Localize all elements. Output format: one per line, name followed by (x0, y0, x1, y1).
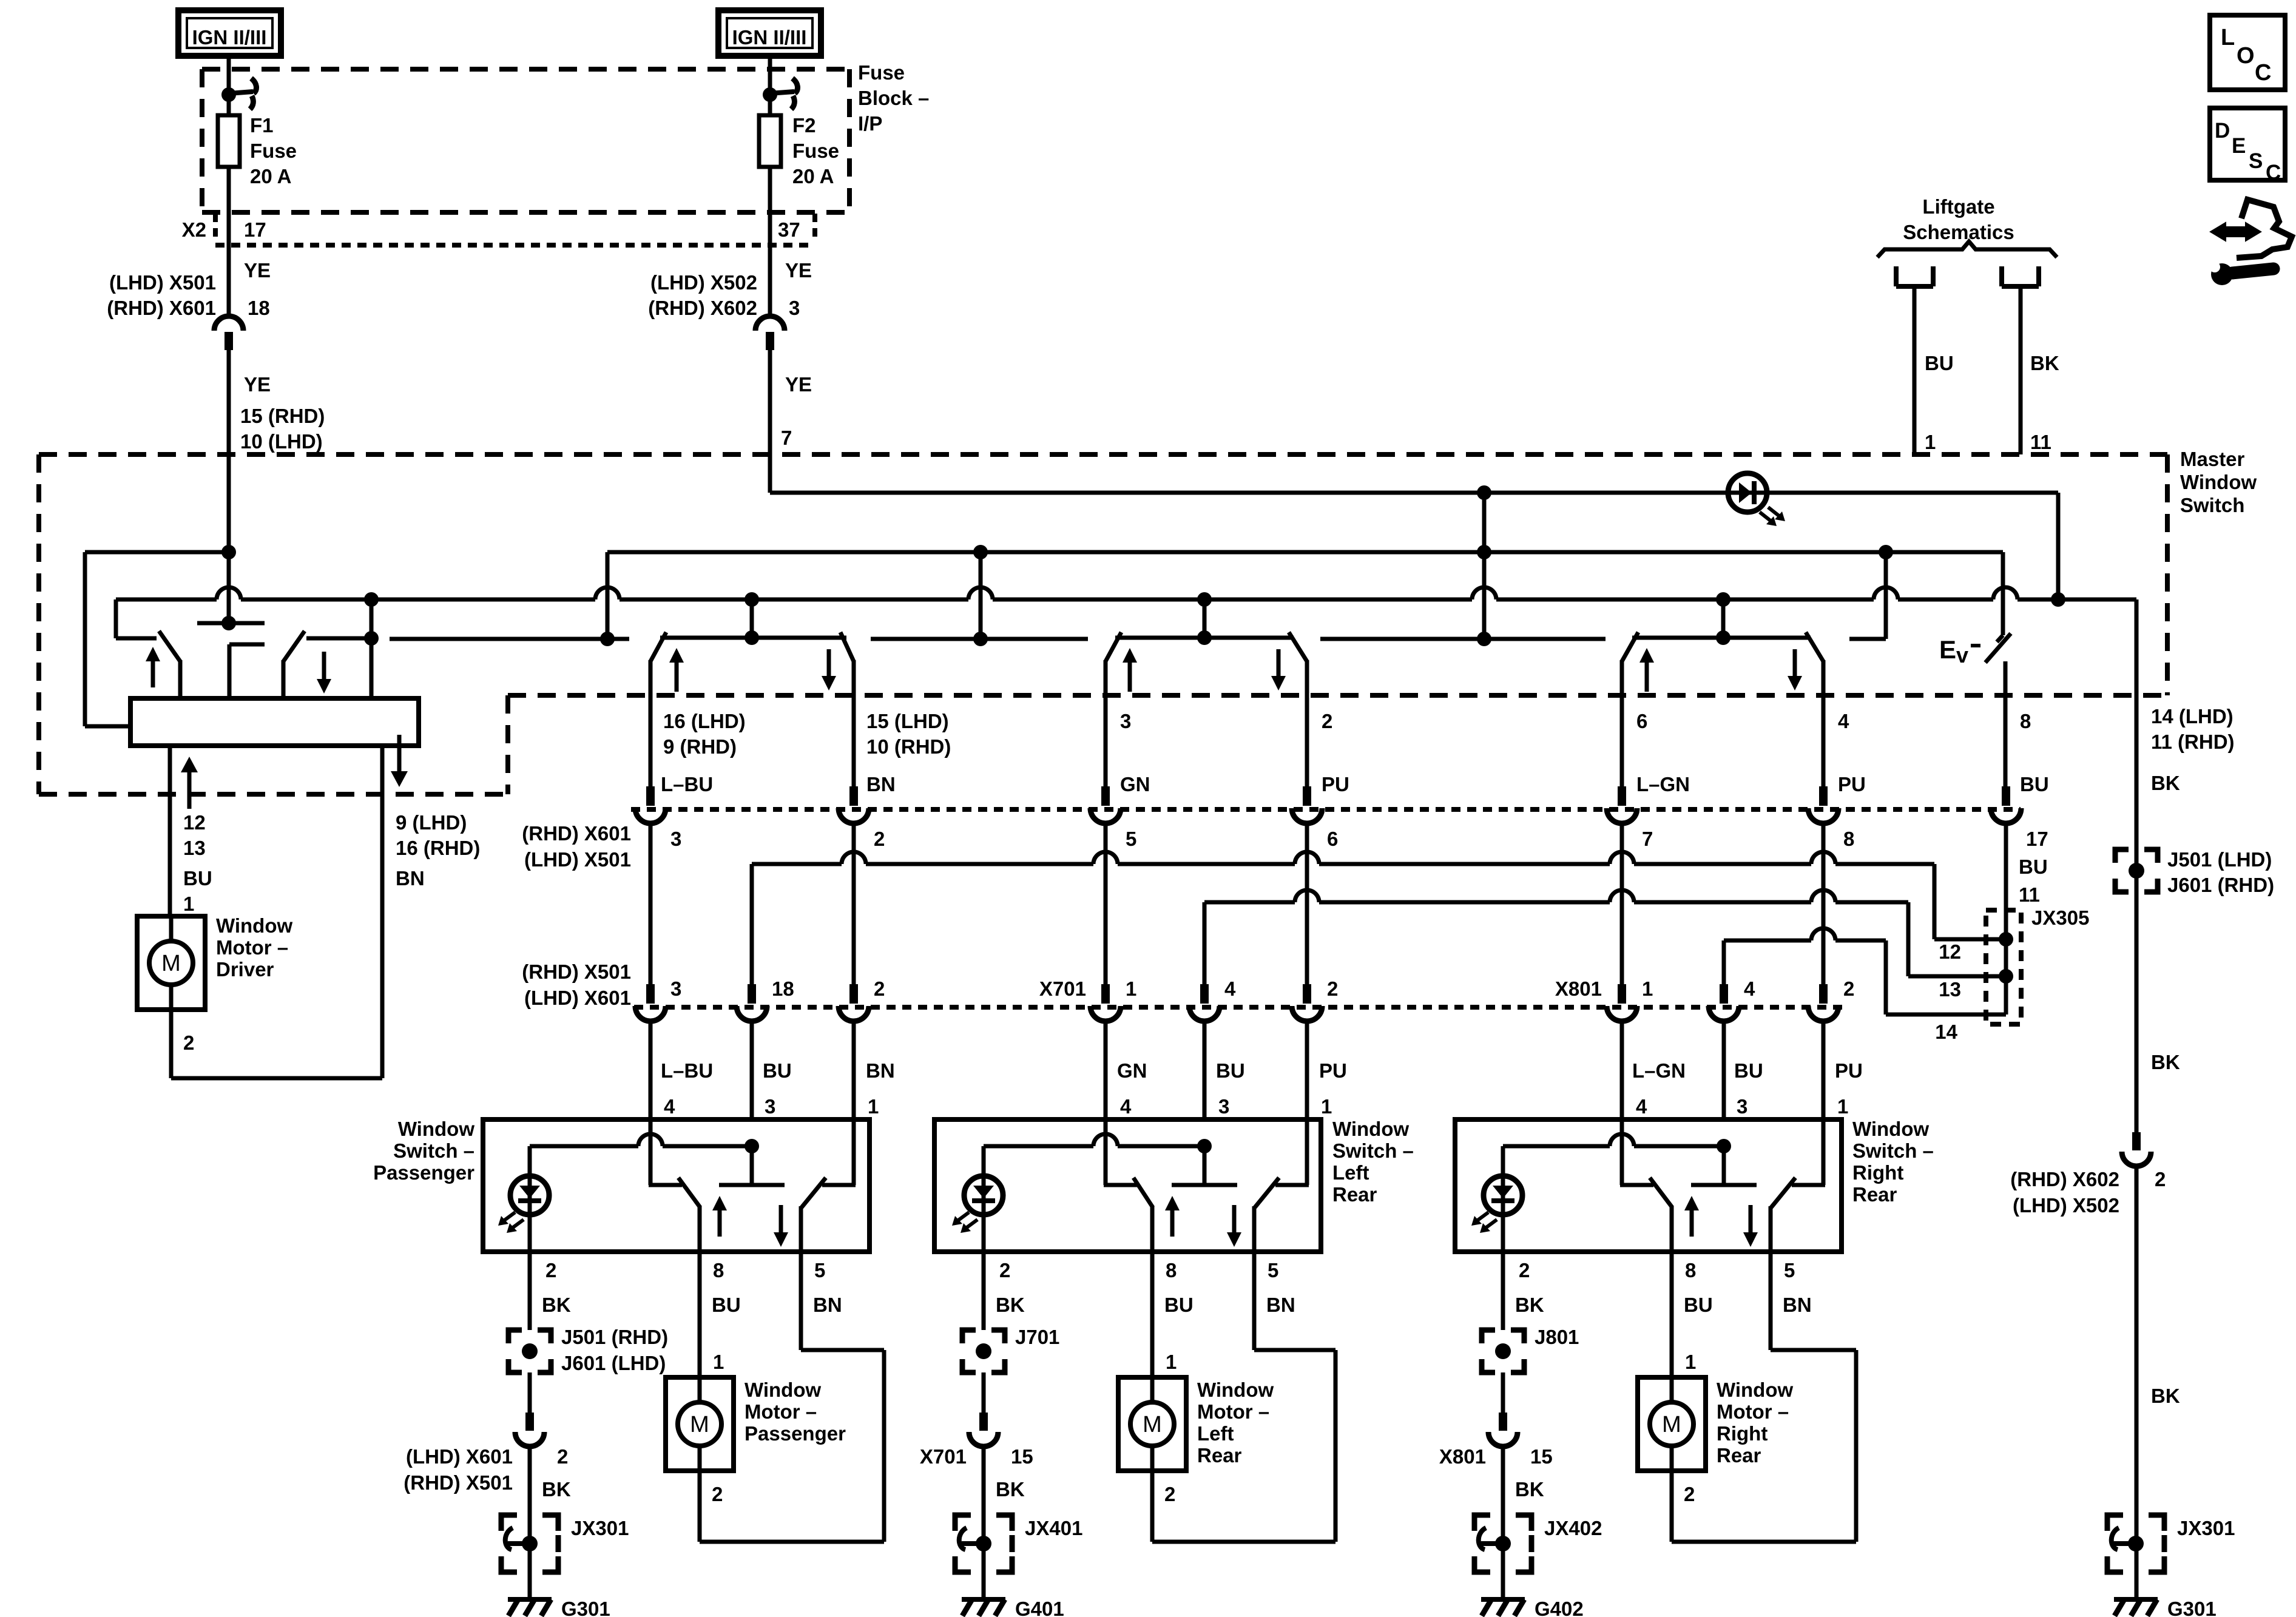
svg-text:1: 1 (1166, 1351, 1177, 1373)
wire down fixed contact (1822, 1119, 1826, 1185)
svg-text:O: O (2237, 43, 2255, 69)
svg-text:Motor –: Motor – (216, 936, 288, 959)
splice JX401 (955, 1515, 971, 1531)
svg-text:X2: X2 (182, 218, 206, 241)
svg-text:GN: GN (1117, 1059, 1147, 1082)
wire LED to bus corner (1767, 491, 2058, 495)
svg-text:Master: Master (2180, 448, 2245, 470)
svg-text:(RHD) X501: (RHD) X501 (522, 960, 631, 983)
unit2 down arm (840, 632, 854, 661)
svg-text:BU: BU (2019, 856, 2048, 878)
svg-text:J601 (RHD): J601 (RHD) (2167, 874, 2274, 896)
svg-text:BN: BN (866, 1059, 895, 1082)
wire LED to box bottom (528, 1215, 532, 1252)
arrow up (pin) (181, 757, 198, 772)
svg-text:(LHD) X502: (LHD) X502 (650, 271, 757, 294)
inline connector X602/X502 pin2 (2132, 1132, 2141, 1150)
wire PU arm down (1305, 660, 1309, 788)
svg-text:Window: Window (398, 1118, 474, 1140)
svg-text:8: 8 (1843, 828, 1854, 850)
wire GN arm down (1104, 660, 1108, 788)
wire BN jog (1254, 1348, 1335, 1352)
svg-text:Right: Right (1717, 1422, 1768, 1445)
arrow up (unit3) (1123, 648, 1137, 663)
svg-text:Window: Window (745, 1379, 821, 1401)
wire L-GN right rear (1620, 824, 1624, 985)
unit4 up arm (1622, 632, 1638, 661)
wire BK to splice (528, 1252, 532, 1330)
svg-text:3: 3 (1120, 710, 1131, 732)
wire to door switch box (1104, 1022, 1108, 1119)
wire line1 into JX305 (1934, 937, 2006, 942)
wire L-BU passenger (649, 824, 653, 985)
svg-text:D: D (2215, 119, 2230, 143)
LED illumination (master switch) (1728, 473, 1767, 512)
wire motor pin2 (169, 1010, 174, 1078)
svg-text:S: S (2249, 149, 2263, 173)
driver switch center contact (228, 644, 232, 698)
splice JX301 (right) (2107, 1515, 2123, 1531)
svg-text:3: 3 (670, 977, 681, 1000)
splice J501(LHD)/J601(RHD) (2115, 849, 2129, 863)
driver switch common bar (197, 621, 265, 626)
svg-text:Rear: Rear (1717, 1444, 1761, 1467)
svg-text:G301: G301 (2167, 1598, 2217, 1617)
node contact segment A (600, 632, 615, 646)
svg-text:Fuse: Fuse (792, 140, 839, 162)
connector row2 pin 1 (1101, 984, 1110, 1004)
unit3 contact bar (1115, 636, 1294, 640)
svg-text:4: 4 (1120, 1095, 1132, 1118)
window motor driver (137, 916, 205, 1010)
inline connector X502/X602 pin3 (755, 316, 785, 331)
liftgate connector fork BU (1894, 266, 1899, 286)
wire pin7 feed line (770, 491, 1728, 495)
wire BU right rear drop (1722, 940, 1726, 985)
svg-text:IGN II/III: IGN II/III (192, 26, 267, 49)
driver switch body (130, 698, 419, 746)
arrow down (pin) (391, 771, 408, 787)
node LED branch (1717, 1139, 1731, 1153)
svg-text:Driver: Driver (216, 958, 274, 981)
wire to LED (528, 1146, 532, 1176)
wire up fixed contact (649, 1119, 653, 1185)
wire motor pin2 (1150, 1471, 1155, 1542)
connector row1 pin 17 (2002, 786, 2010, 806)
common contact bar (1691, 1183, 1757, 1187)
svg-text:X701: X701 (920, 1445, 967, 1468)
svg-text:1: 1 (1837, 1095, 1848, 1118)
svg-text:L–BU: L–BU (661, 773, 713, 795)
wire busA drop unit3 (979, 552, 983, 639)
wire BN from pin5 (799, 1252, 803, 1350)
LED branch wire (984, 1144, 1093, 1149)
svg-text:Window: Window (2180, 471, 2257, 493)
wire L-BU arm down (649, 660, 653, 788)
svg-text:J801: J801 (1535, 1326, 1579, 1348)
wire F2 to X502 connector (768, 167, 772, 316)
svg-text:X701: X701 (1039, 977, 1086, 1000)
node common bar (221, 616, 236, 630)
node W1 branch (221, 545, 236, 559)
wire BN return riser (882, 1350, 886, 1542)
down switch arm (1771, 1178, 1795, 1207)
ground G301 (right) (2114, 1597, 2158, 1602)
svg-text:L–GN: L–GN (1632, 1059, 1686, 1082)
unit4 down arm (1806, 632, 1823, 661)
power tag IGN II/III (right) (718, 10, 821, 56)
node contact segment B (973, 632, 988, 646)
svg-text:8: 8 (2020, 710, 2031, 732)
arrow down (unit3) (1271, 676, 1286, 690)
wire BU to motor pin1 (698, 1252, 702, 1377)
wire BU pin8 down (2004, 661, 2008, 788)
wire IGN to F2 (768, 56, 772, 115)
node busA right segment feed (1879, 545, 1893, 559)
svg-text:BU: BU (763, 1059, 792, 1082)
node JX305 pin13 (1999, 969, 2013, 984)
arrow up (unit4) (1639, 648, 1654, 663)
svg-text:BN: BN (1783, 1294, 1812, 1316)
wire bus2 to bar (unit2) (750, 599, 754, 638)
wire IGN to F1 (227, 56, 231, 115)
inline connector X701 (979, 1413, 988, 1431)
wire PU left rear (1305, 824, 1309, 985)
svg-text:Right: Right (1852, 1161, 1903, 1184)
connector row2 pin 4 (1720, 984, 1728, 1004)
wire branch to box left (85, 550, 229, 555)
wire line3 drop (1884, 940, 1888, 1014)
wire BK to ground (982, 1447, 986, 1599)
svg-text:20 A: 20 A (792, 165, 834, 187)
connector row2 pin 18 (748, 984, 756, 1004)
wire crossover line1 (passenger BU to JX305 12) (752, 862, 842, 866)
svg-text:Window: Window (1717, 1379, 1793, 1401)
wire contact segment B (871, 637, 1088, 641)
svg-text:1: 1 (1126, 977, 1136, 1000)
svg-text:YE: YE (244, 259, 271, 282)
arrow down (774, 1232, 788, 1247)
EV switch arm (1985, 633, 2011, 663)
svg-text:37: 37 (778, 218, 800, 241)
svg-text:Motor –: Motor – (1717, 1400, 1789, 1423)
svg-text:Fuse: Fuse (250, 140, 297, 162)
svg-text:1: 1 (183, 893, 194, 915)
wire BN arm down (852, 660, 856, 788)
svg-text:7: 7 (1642, 828, 1653, 850)
wire to LED (1501, 1146, 1505, 1176)
connector row2 pin 2 (1303, 984, 1311, 1004)
wire liftgate BU pin1 (1913, 286, 1917, 454)
wire BU 17 to JX305 (2004, 824, 2008, 1014)
wire BK to splice (1501, 1252, 1505, 1330)
LED illumination (Window) (510, 1176, 549, 1215)
svg-text:BU: BU (1925, 352, 1954, 374)
svg-text:(RHD) X501: (RHD) X501 (403, 1471, 513, 1494)
svg-text:Block –: Block – (858, 87, 929, 109)
wire bus2 to bar (unit3) (1203, 599, 1207, 638)
svg-text:1: 1 (1321, 1095, 1332, 1118)
connector X2 dotted line (215, 243, 815, 248)
svg-text:11: 11 (2019, 883, 2040, 906)
svg-text:BK: BK (996, 1478, 1025, 1501)
svg-text:BK: BK (2030, 352, 2059, 374)
svg-text:8: 8 (1166, 1259, 1177, 1281)
connector row2 pin 1 (1618, 984, 1626, 1004)
svg-text:JX401: JX401 (1025, 1517, 1082, 1539)
svg-text:YE: YE (244, 373, 271, 396)
wire line2 drop (1906, 902, 1911, 976)
wire motor pin2 (1670, 1471, 1674, 1542)
window motor Rear (1638, 1377, 1706, 1471)
svg-text:2: 2 (1843, 977, 1854, 1000)
svg-text:Rear: Rear (1197, 1444, 1242, 1467)
svg-text:13: 13 (1939, 978, 1961, 1001)
svg-text:M: M (161, 951, 181, 976)
connector row X501/X601 dotted line (631, 807, 2021, 812)
svg-text:YE: YE (785, 373, 812, 396)
node LED feed/bus2 (2051, 592, 2065, 607)
wire LED to box bottom (982, 1215, 986, 1252)
legend icon arrows/wrench (2210, 223, 2261, 241)
svg-text:4: 4 (1744, 977, 1755, 1000)
driver switch down contact arm (283, 631, 305, 661)
EV fixed contact tick (1997, 635, 2003, 642)
svg-text:(LHD) X501: (LHD) X501 (109, 271, 216, 294)
wire contact segment C (1320, 637, 1606, 641)
arrow up (1684, 1196, 1699, 1210)
svg-text:14 (LHD): 14 (LHD) (2151, 705, 2234, 727)
connector row1 pin 3 (646, 786, 655, 806)
wire BN jog (1771, 1348, 1856, 1352)
svg-text:13: 13 (183, 837, 206, 859)
wire BK (1501, 1372, 1505, 1413)
svg-text:BK: BK (2151, 772, 2180, 794)
wire L-GN arm down (1620, 660, 1624, 788)
svg-text:PU: PU (1838, 773, 1866, 795)
wire line1 drop (1933, 864, 1937, 939)
arrow up (712, 1196, 727, 1210)
svg-text:JX301: JX301 (571, 1517, 629, 1539)
wire YE to master switch (227, 350, 231, 552)
legend box DESC (2210, 108, 2285, 180)
svg-text:Switch –: Switch – (393, 1139, 474, 1162)
wire BK to ground (1501, 1447, 1505, 1599)
svg-text:2: 2 (1684, 1483, 1695, 1505)
power tag IGN II/III (left) (178, 10, 281, 56)
svg-text:Window: Window (1332, 1118, 1409, 1140)
node bus2 unit4 feed (1716, 592, 1730, 607)
down switch arm (802, 1178, 826, 1207)
node bus2 driver-right feed (364, 592, 379, 607)
svg-text:1: 1 (1642, 977, 1653, 1000)
svg-text:10 (LHD): 10 (LHD) (240, 430, 323, 453)
wire BU to motor pin1 (1670, 1252, 1674, 1377)
svg-text:3: 3 (765, 1095, 775, 1118)
wire bus2 to box (370, 599, 374, 698)
node busA (1477, 545, 1491, 559)
svg-text:BK: BK (542, 1478, 571, 1501)
wire common feed (750, 1146, 754, 1185)
driver switch up contact arm (159, 631, 180, 661)
svg-text:BN: BN (396, 867, 425, 890)
wire PU right rear (1822, 824, 1826, 985)
unit3 up arm (1106, 632, 1121, 661)
wire PU arm down (1822, 660, 1826, 788)
svg-text:v: v (1956, 643, 1968, 667)
wire BK (528, 1372, 532, 1413)
svg-text:X801: X801 (1555, 977, 1602, 1000)
wire line3 into JX305 (1886, 1013, 2006, 1017)
node JX305 pin12 (1999, 932, 2013, 947)
wire BN return riser (1334, 1350, 1338, 1542)
svg-text:J501 (RHD): J501 (RHD) (561, 1326, 668, 1348)
svg-text:2: 2 (1322, 710, 1332, 732)
svg-text:5: 5 (1784, 1259, 1795, 1281)
wire to door switch box (1822, 1022, 1826, 1119)
inline connector X501/X601 pin18 (214, 316, 243, 331)
wire to door switch box (852, 1022, 856, 1119)
svg-text:(RHD) X602: (RHD) X602 (2010, 1168, 2119, 1190)
wire YE pin7 down (768, 350, 772, 493)
svg-text:I/P: I/P (858, 112, 882, 135)
svg-text:C: C (2266, 161, 2281, 184)
node bus2 unit3 feed (1197, 592, 1212, 607)
wire crossover line3 (right rear BU to JX305 14) (1724, 939, 1811, 943)
wire bus2 to bar (unit4) (1721, 599, 1726, 638)
wire GN left rear (1104, 824, 1108, 985)
svg-text:BU: BU (712, 1294, 741, 1316)
svg-text:10 (RHD): 10 (RHD) (866, 735, 951, 758)
wire BU left rear drop (1203, 902, 1207, 985)
svg-text:16 (LHD): 16 (LHD) (663, 710, 746, 732)
svg-text:3: 3 (1737, 1095, 1747, 1118)
svg-text:17: 17 (2026, 828, 2048, 850)
svg-text:JX402: JX402 (1544, 1517, 1602, 1539)
arrow down (1227, 1232, 1241, 1247)
wire down fixed contact (1305, 1119, 1309, 1185)
splice J801 (1482, 1330, 1495, 1343)
wire to door switch box (1305, 1022, 1309, 1119)
svg-text:F1: F1 (250, 114, 274, 137)
inline connector (LHD) X601|(RHD) X501 (525, 1413, 534, 1431)
wire crossover line2 (left rear BU to JX305 13) (1204, 900, 1295, 905)
connector row2 pin 3 (646, 984, 655, 1004)
wire BN from pin5 (1252, 1252, 1257, 1350)
wire BN from pin5 (1769, 1252, 1773, 1350)
common contact bar (719, 1183, 785, 1187)
svg-text:1: 1 (713, 1351, 724, 1373)
node LED branch (1197, 1139, 1212, 1153)
up switch arm (1133, 1178, 1153, 1207)
wire bus2 lower internal bus (116, 598, 217, 602)
svg-text:20 A: 20 A (250, 165, 291, 187)
svg-text:2: 2 (712, 1483, 723, 1505)
wire to door switch box (1620, 1022, 1624, 1119)
up switch arm (1650, 1178, 1672, 1207)
wire busA left drop to contact segment (606, 552, 610, 639)
svg-text:BN: BN (813, 1294, 842, 1316)
ground G301 (508, 1597, 552, 1602)
window motor Rear (1118, 1377, 1186, 1471)
svg-text:E: E (1939, 635, 1956, 664)
svg-text:2: 2 (183, 1031, 194, 1054)
unit3 down arm (1289, 632, 1307, 661)
svg-text:18: 18 (772, 977, 794, 1000)
connector row1 pin 8 (1819, 786, 1828, 806)
svg-text:Passenger: Passenger (373, 1161, 474, 1184)
fuse tap switch F1 (221, 87, 236, 102)
arrow down (1743, 1232, 1758, 1247)
liftgate connector fork BK (1999, 266, 2004, 286)
connector row X501/X701/X801 dotted line (634, 1005, 1845, 1010)
node bar unit3 (1197, 630, 1212, 645)
wire liftgate BK pin11 (2019, 286, 2023, 454)
LED illumination (Window) (964, 1176, 1003, 1215)
wire motor return (700, 1540, 884, 1544)
wire BN return riser (1854, 1350, 1859, 1542)
LED illumination (Window) (1484, 1176, 1522, 1215)
svg-text:15: 15 (1011, 1445, 1033, 1468)
arrow down (driver) (317, 679, 331, 694)
up switch arm (678, 1178, 700, 1207)
arrow up (1165, 1196, 1180, 1210)
svg-text:JX301: JX301 (2177, 1517, 2235, 1539)
wire down to lower bus (2056, 493, 2061, 599)
svg-text:5: 5 (814, 1259, 825, 1281)
wire driver right contact segment (306, 636, 371, 641)
wire to door switch box (649, 1022, 653, 1119)
svg-text:16 (RHD): 16 (RHD) (396, 837, 480, 859)
wire to door switch box (750, 1022, 754, 1119)
svg-text:(LHD) X502: (LHD) X502 (2013, 1194, 2119, 1217)
svg-text:BK: BK (1515, 1294, 1544, 1316)
svg-text:BK: BK (1515, 1478, 1544, 1501)
wire branch feed to upper bus (1482, 493, 1487, 639)
svg-text:BU: BU (183, 867, 212, 890)
ground G401 (962, 1597, 1005, 1602)
svg-text:J601 (LHD): J601 (LHD) (561, 1352, 666, 1374)
svg-text:2: 2 (874, 828, 885, 850)
arrow down (unit4) (1788, 676, 1802, 690)
svg-text:L–GN: L–GN (1636, 773, 1690, 795)
svg-text:1: 1 (1685, 1351, 1696, 1373)
fuse F1 20A (218, 115, 240, 167)
svg-text:M: M (690, 1412, 709, 1437)
window switch box: Window (1455, 1119, 1842, 1252)
inline connector X801 (1499, 1413, 1507, 1431)
svg-text:17: 17 (244, 218, 266, 241)
svg-text:11: 11 (2030, 431, 2051, 453)
svg-text:X801: X801 (1439, 1445, 1486, 1468)
svg-text:Rear: Rear (1332, 1183, 1377, 1206)
svg-text:2: 2 (557, 1445, 568, 1468)
wire BK to ground (528, 1447, 532, 1599)
svg-text:6: 6 (1636, 710, 1647, 732)
unit4 contact bar (1632, 636, 1811, 640)
svg-text:M: M (1143, 1412, 1162, 1437)
svg-text:Motor –: Motor – (1197, 1400, 1269, 1423)
node bus2 unit2 feed (745, 592, 759, 607)
LED branch wire (530, 1144, 638, 1149)
wire line2 into JX305 (1908, 974, 2006, 979)
svg-text:G401: G401 (1015, 1598, 1064, 1617)
wire BN driver switch pin9/16 (380, 746, 385, 1078)
svg-text:YE: YE (785, 259, 812, 282)
svg-text:BK: BK (2151, 1051, 2180, 1073)
fuse tap switch F2 (763, 87, 777, 102)
svg-text:Window: Window (1197, 1379, 1274, 1401)
